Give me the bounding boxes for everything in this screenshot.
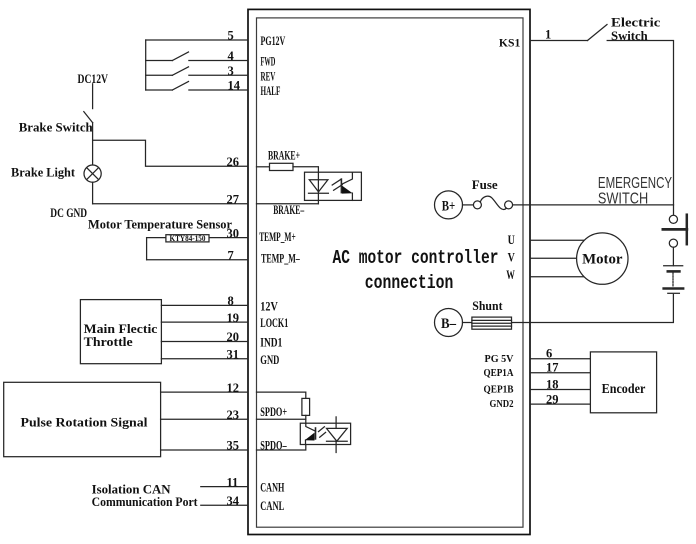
controller title text	[333, 247, 499, 294]
svg-text:GND: GND	[260, 352, 279, 367]
resistor R2	[302, 398, 310, 415]
svg-text:B–: B–	[441, 316, 456, 332]
pin number 17	[546, 361, 559, 375]
svg-text:DC GND: DC GND	[50, 205, 87, 220]
wire pin12	[161, 391, 248, 393]
svg-text:Fuse: Fuse	[472, 177, 498, 192]
pin number 26	[227, 155, 240, 169]
svg-text:HALF: HALF	[261, 83, 281, 98]
svg-text:AC motor controller: AC motor controller	[333, 247, 499, 269]
optocoupler U2 LED	[327, 417, 348, 453]
fuse label	[472, 177, 498, 192]
pin label BRAKE+	[268, 148, 300, 163]
svg-text:12V: 12V	[260, 298, 278, 313]
svg-text:BRAKE+: BRAKE+	[268, 148, 300, 163]
svg-text:KTY84-150: KTY84-150	[170, 234, 206, 243]
wire pushbutton to battery	[672, 247, 674, 265]
wire V	[530, 257, 578, 259]
wire pin27 internal	[257, 203, 319, 205]
pin number 3	[228, 64, 234, 78]
emergency switch pushbutton	[663, 215, 687, 248]
svg-text:27: 27	[227, 193, 240, 207]
svg-text:35: 35	[227, 439, 240, 453]
B+ terminal	[435, 191, 463, 219]
pin label KS1	[499, 35, 520, 49]
svg-text:PG 5V: PG 5V	[485, 353, 514, 365]
wire pin35 internal	[257, 445, 306, 451]
svg-text:7: 7	[228, 248, 234, 262]
wire pin20	[161, 341, 248, 343]
encoder box	[590, 352, 656, 413]
pin label QEP1A	[484, 367, 514, 379]
svg-text:34: 34	[227, 494, 240, 508]
wire pin23	[161, 418, 248, 420]
wire temp bus	[146, 238, 148, 260]
pin number 27	[227, 193, 240, 207]
isolation CAN label	[92, 482, 199, 509]
svg-text:23: 23	[227, 408, 240, 422]
wire R2 to opto	[305, 415, 307, 423]
svg-text:V: V	[508, 251, 515, 265]
wire pin7	[147, 259, 248, 261]
wire pin35	[161, 449, 248, 451]
pin label CANL	[260, 498, 284, 513]
wire R1 to LED	[293, 167, 318, 204]
svg-text:PG12V: PG12V	[261, 33, 286, 48]
pin label PG12V	[261, 33, 286, 48]
node DC12V label	[78, 71, 109, 86]
svg-text:U: U	[508, 233, 515, 247]
pin number 31	[227, 348, 240, 362]
svg-text:B+: B+	[442, 199, 456, 215]
pin number 18	[546, 378, 559, 392]
svg-text:QEP1B: QEP1B	[484, 384, 515, 396]
pin number 30	[227, 226, 240, 240]
pulse rotation signal label	[21, 415, 148, 430]
wire W	[530, 276, 586, 278]
pin label GND	[260, 352, 279, 367]
wire DC12V lead	[92, 84, 94, 109]
pin number 11	[227, 475, 239, 489]
wire pin29	[531, 403, 591, 405]
optocoupler U2 light rays	[319, 427, 326, 437]
pin number 5	[228, 29, 234, 43]
svg-text:11: 11	[227, 475, 239, 489]
switch S3 HALF	[146, 82, 248, 91]
pin number 6	[546, 347, 552, 361]
pin number 34	[227, 494, 240, 508]
pin label IND1	[260, 335, 282, 350]
wire pin11	[201, 486, 248, 488]
svg-text:5: 5	[228, 29, 234, 43]
pin label SPDO+	[260, 404, 287, 419]
svg-text:Brake Light: Brake Light	[11, 164, 76, 179]
wire pin8	[161, 304, 248, 306]
wire switch-group bus	[145, 40, 147, 90]
pin label SPDO-	[260, 437, 287, 452]
pin label GND2	[490, 398, 514, 410]
svg-text:Encoder: Encoder	[602, 382, 646, 397]
pin label U	[508, 233, 515, 247]
wire pin1 to electric switch	[530, 40, 588, 42]
pin label CANH	[260, 480, 284, 495]
wire pin30	[147, 237, 248, 239]
svg-text:IND1: IND1	[260, 335, 282, 350]
throttle label	[84, 321, 158, 349]
svg-text:Pulse Rotation Signal: Pulse Rotation Signal	[21, 415, 148, 430]
sensor KTY84-150	[166, 234, 209, 243]
svg-text:QEP1A: QEP1A	[484, 367, 514, 379]
svg-text:CANL: CANL	[260, 498, 284, 513]
throttle box	[80, 300, 161, 364]
motor temperature sensor label	[88, 217, 232, 232]
pin number 14	[228, 79, 241, 93]
pin number 23	[227, 408, 240, 422]
controller inner box	[257, 18, 524, 527]
pin label REV	[261, 68, 276, 83]
pin label 12V	[260, 298, 278, 313]
svg-text:30: 30	[227, 226, 240, 240]
optocoupler U1 phototransistor	[341, 173, 352, 200]
svg-text:SWITCH: SWITCH	[598, 191, 648, 208]
pin number 4	[228, 49, 235, 63]
controller outer box	[248, 9, 530, 534]
wire junction to pin 26	[93, 140, 248, 166]
svg-text:SPDO+: SPDO+	[260, 404, 287, 419]
pin number 7	[228, 248, 234, 262]
wire fuse to emergency switch	[513, 204, 674, 206]
brake switch blade	[84, 112, 93, 123]
svg-text:LOCK1: LOCK1	[260, 315, 288, 330]
pin number 35	[227, 439, 240, 453]
wire pin19	[161, 321, 248, 323]
wire pin34	[201, 504, 248, 506]
svg-text:Communication Port: Communication Port	[92, 494, 199, 509]
svg-text:CANH: CANH	[260, 480, 284, 495]
pin label BRAKE-	[273, 202, 304, 217]
svg-text:1: 1	[545, 27, 551, 41]
wire battery to shunt	[512, 295, 674, 323]
motor M1	[577, 233, 628, 284]
wire U	[530, 239, 586, 241]
pin number 19	[227, 311, 240, 325]
wire lamp to DC GND	[93, 182, 248, 204]
pin number 1	[545, 27, 551, 41]
optocoupler U1 box	[305, 172, 362, 200]
pin label HALF	[261, 83, 281, 98]
wire pin18	[531, 389, 591, 391]
wire pin5 PG12V	[146, 39, 248, 41]
optocoupler U2 phototransistor	[305, 423, 316, 444]
battery BT1	[664, 266, 683, 294]
svg-text:Brake Switch: Brake Switch	[19, 120, 94, 135]
optocoupler U2 box	[300, 423, 350, 444]
electric switch label	[611, 14, 661, 43]
switch S1 FWD	[146, 52, 248, 61]
shunt label	[472, 298, 503, 313]
svg-text:4: 4	[228, 49, 235, 63]
wire electric switch to right rail	[607, 41, 673, 216]
brake switch label	[19, 120, 94, 135]
resistor R1	[270, 163, 294, 170]
svg-text:Shunt: Shunt	[472, 298, 503, 313]
svg-text:Throttle: Throttle	[84, 334, 133, 349]
svg-text:3: 3	[228, 64, 234, 78]
emergency switch label	[598, 175, 672, 208]
brake light label	[11, 164, 76, 179]
pin label FWD	[261, 54, 276, 69]
pin label TEMP_M-	[261, 251, 300, 266]
svg-text:Motor: Motor	[582, 251, 623, 267]
fuse F1	[473, 196, 512, 209]
pin label V	[508, 251, 515, 265]
electric switch blade	[588, 25, 608, 41]
optocoupler U1 LED	[309, 180, 329, 194]
wire brake switch to junction	[92, 123, 94, 166]
pin number 29	[546, 392, 559, 406]
svg-text:W: W	[506, 268, 515, 282]
svg-text:12: 12	[227, 381, 240, 395]
pin number 20	[227, 330, 240, 344]
pin label TEMP_M+	[259, 229, 296, 244]
svg-text:KS1: KS1	[499, 35, 520, 49]
pulse rotation signal box	[4, 382, 161, 456]
svg-text:Motor Temperature Sensor: Motor Temperature Sensor	[88, 217, 232, 232]
svg-text:14: 14	[228, 79, 241, 93]
svg-text:FWD: FWD	[261, 54, 276, 69]
svg-text:19: 19	[227, 311, 240, 325]
wire pin23 internal	[257, 418, 306, 420]
brake light lamp	[84, 165, 101, 182]
B- terminal	[435, 309, 463, 337]
wire pin6	[531, 358, 591, 360]
svg-text:TEMP_M+: TEMP_M+	[259, 229, 296, 244]
wire B- to shunt	[463, 322, 472, 324]
pin label W	[506, 268, 515, 282]
pin label PG 5V	[485, 353, 514, 365]
svg-text:31: 31	[227, 348, 240, 362]
pin label QEP1B	[484, 384, 515, 396]
pin number 8	[228, 294, 234, 308]
node DC GND label	[50, 205, 87, 220]
svg-text:8: 8	[228, 294, 234, 308]
svg-text:connection: connection	[365, 272, 454, 294]
svg-text:GND2: GND2	[490, 398, 514, 410]
optocoupler U1 light rays	[332, 179, 342, 190]
svg-text:26: 26	[227, 155, 240, 169]
wire B+ to fuse	[463, 204, 474, 206]
pin number 12	[227, 381, 240, 395]
svg-text:TEMP_M–: TEMP_M–	[261, 251, 300, 266]
wire pin31	[161, 358, 248, 360]
svg-text:EMERGENCY: EMERGENCY	[598, 175, 672, 192]
svg-text:20: 20	[227, 330, 240, 344]
switch S2 REV	[146, 67, 248, 76]
svg-text:REV: REV	[261, 68, 276, 83]
pin label LOCK1	[260, 315, 288, 330]
wire pin17	[531, 372, 591, 374]
wire pin26 internal	[257, 166, 270, 168]
shunt RS1	[472, 317, 512, 329]
wire pin12 internal	[257, 392, 306, 398]
